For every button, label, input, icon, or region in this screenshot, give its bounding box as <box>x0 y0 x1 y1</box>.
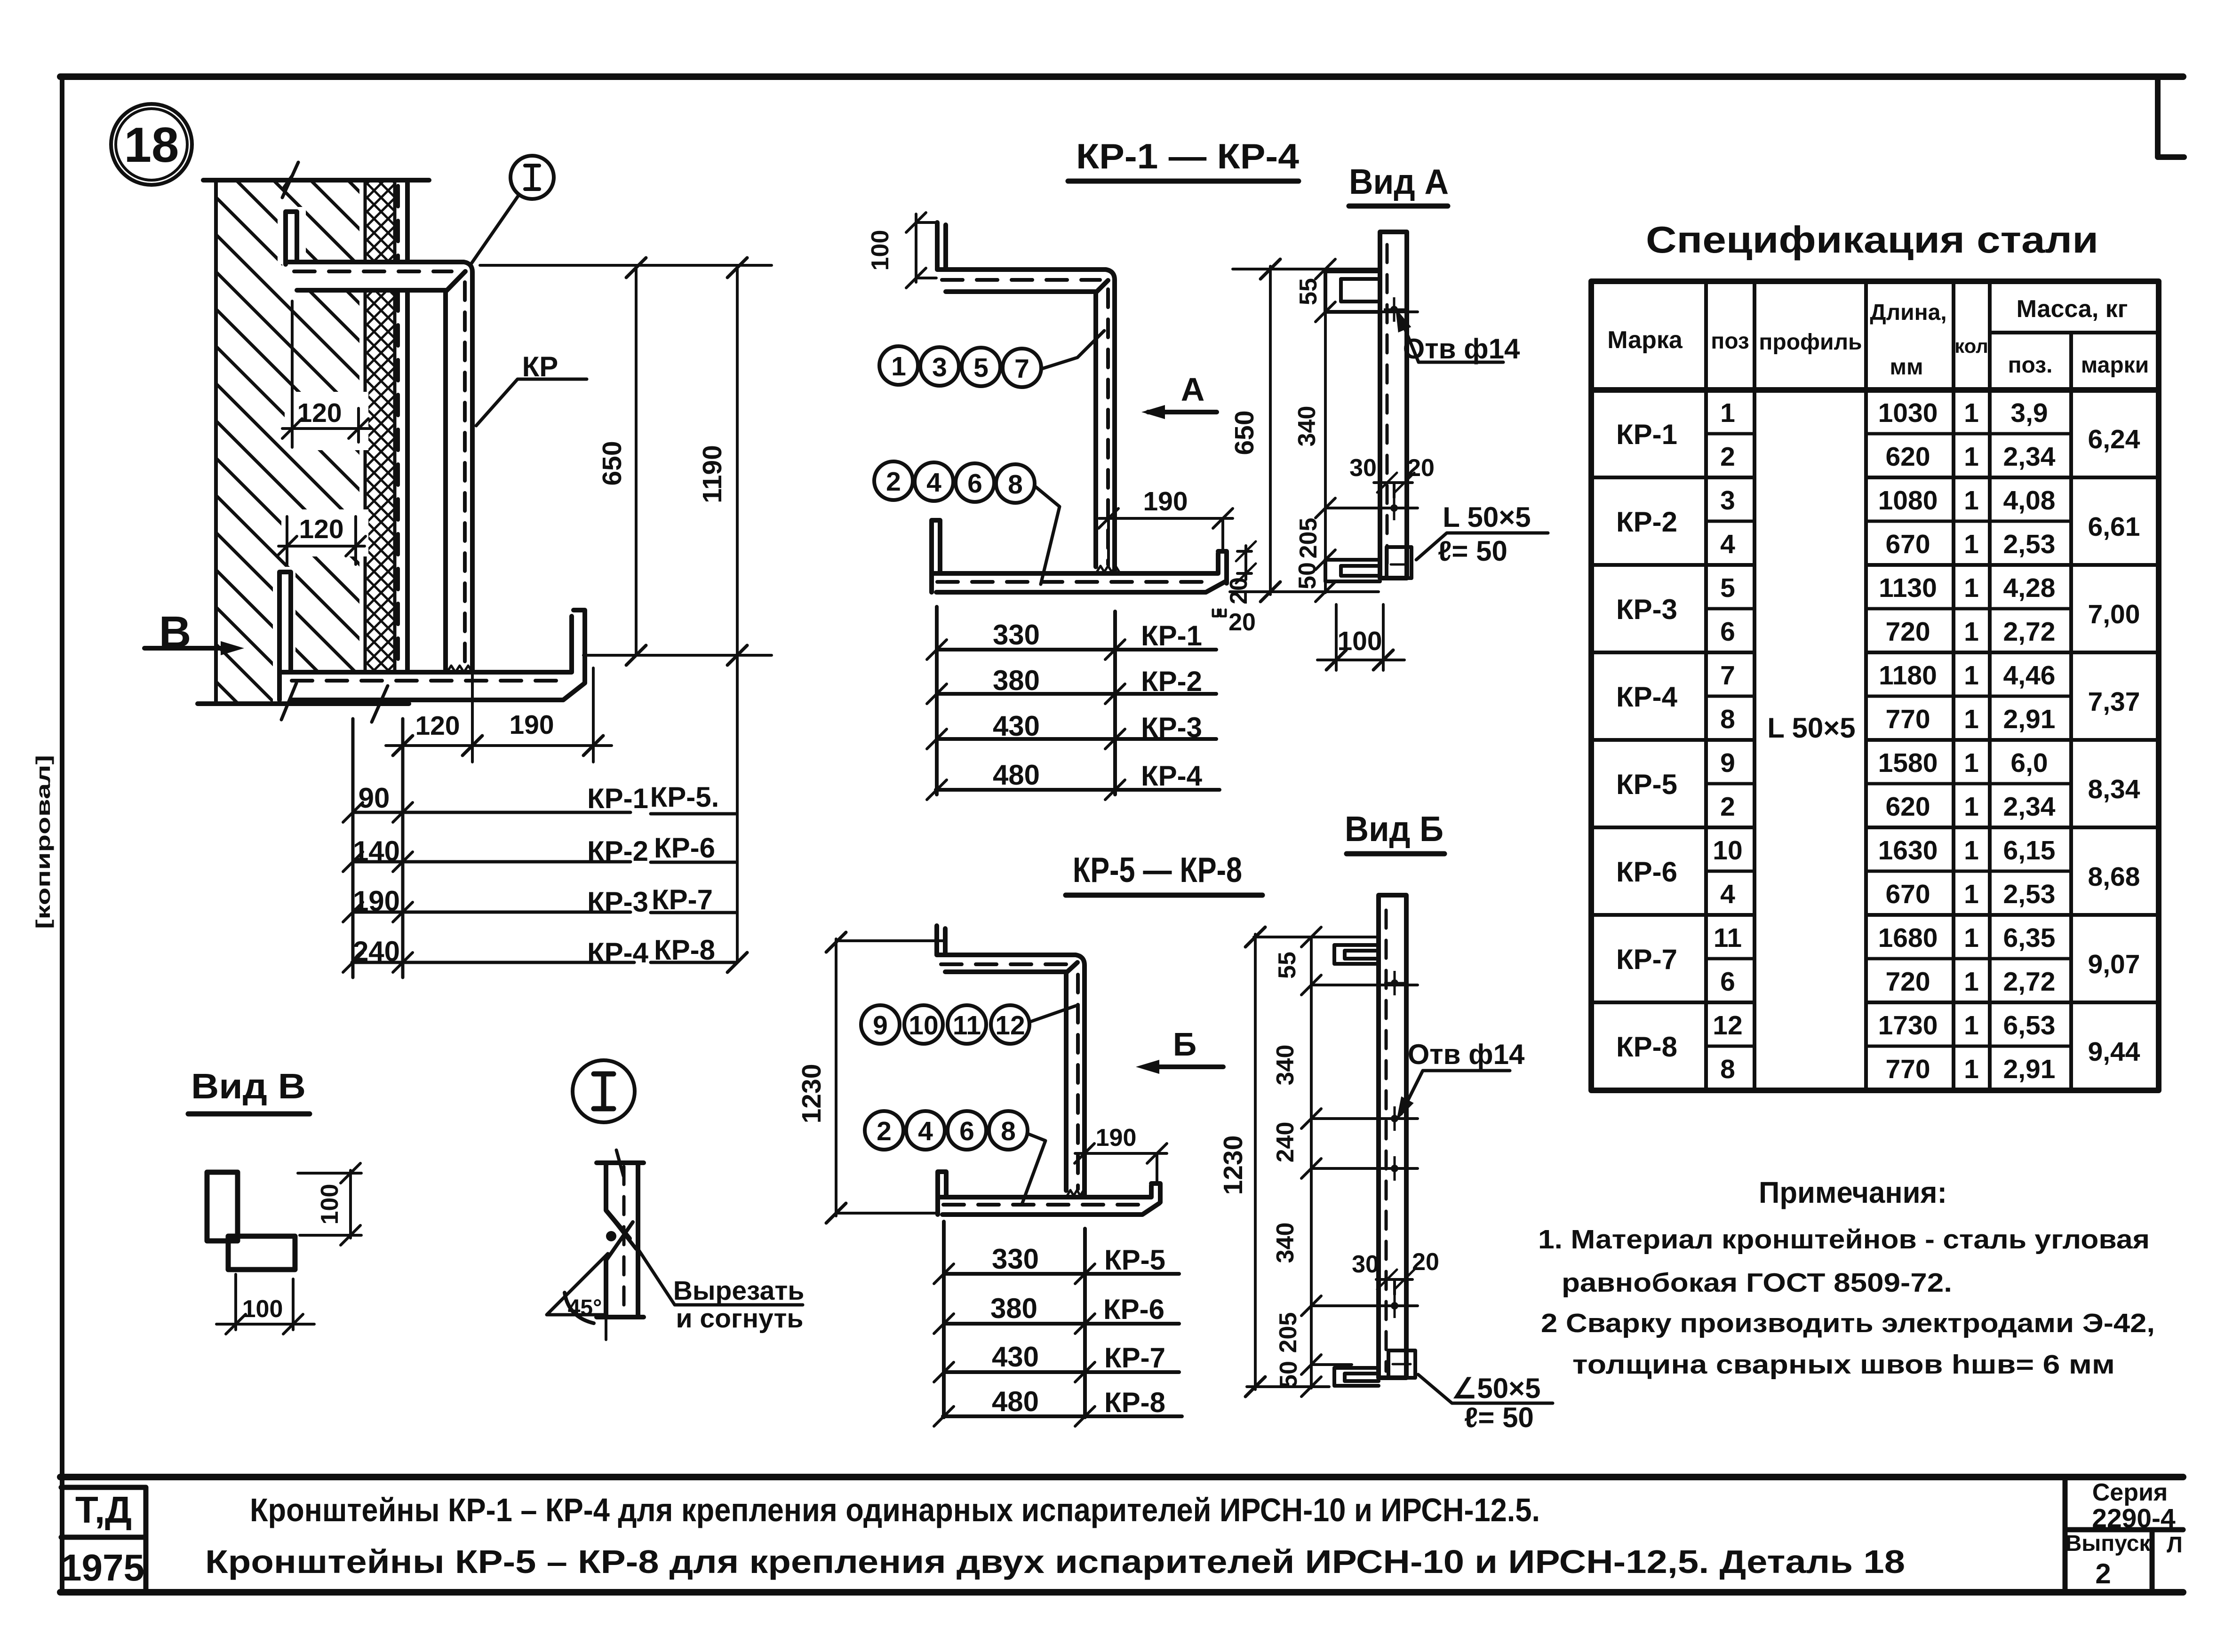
leader 1357 to stem <box>1042 331 1104 369</box>
bottom arm dashed <box>937 580 1210 584</box>
wall finish face line <box>405 180 410 704</box>
svg-text:L 50×5: L 50×5 <box>1443 501 1531 533</box>
svg-text:Вырезать: Вырезать <box>673 1276 805 1306</box>
wall bottom edge <box>198 701 409 706</box>
svg-text:КР-2: КР-2 <box>587 835 648 867</box>
svg-text:6,61: 6,61 <box>2088 512 2140 542</box>
svg-text:Примечания:: Примечания: <box>1759 1175 1947 1209</box>
svg-text:8: 8 <box>1720 1054 1735 1084</box>
bottom angle piece <box>1334 1368 1379 1386</box>
svg-text:1: 1 <box>1964 529 1979 559</box>
L50x5 end piece <box>1388 1350 1415 1378</box>
svg-text:205: 205 <box>1295 518 1322 559</box>
bracket bottom arm (section) <box>279 610 585 700</box>
bar hidden dashed <box>1386 245 1389 572</box>
svg-text:2: 2 <box>877 1116 892 1146</box>
bracket top lip (section) <box>286 212 297 264</box>
svg-text:2,72: 2,72 <box>2003 617 2056 647</box>
svg-text:1230: 1230 <box>797 1064 827 1124</box>
detail circle 18 <box>111 104 192 185</box>
weld mark stem bottom <box>447 666 472 672</box>
svg-text:120: 120 <box>415 711 460 741</box>
svg-text:КР-1 — КР-4: КР-1 — КР-4 <box>1076 136 1299 176</box>
dim 190 <box>1099 518 1233 567</box>
bottom arm hidden dashed <box>292 679 569 683</box>
holes <box>1384 297 1404 322</box>
svg-text:1: 1 <box>1964 792 1979 822</box>
svg-text:кол: кол <box>1954 335 1988 357</box>
45 deg wedge <box>547 1254 608 1315</box>
dim 650 view A <box>1230 266 1379 595</box>
bar hidden dashed <box>1385 910 1388 1371</box>
frame border left <box>60 77 64 1592</box>
detail circle I <box>573 1060 635 1122</box>
svg-text:4: 4 <box>926 468 941 498</box>
svg-text:4,46: 4,46 <box>2003 660 2056 691</box>
stem dashed <box>1106 289 1110 564</box>
svg-text:6: 6 <box>959 1116 974 1146</box>
svg-text:9,44: 9,44 <box>2088 1037 2140 1067</box>
dim 100 top lip <box>916 214 937 282</box>
bracket hidden leg dashed <box>396 186 400 701</box>
stem dashed <box>1076 975 1080 1189</box>
svg-text:КР-6: КР-6 <box>1616 856 1677 888</box>
svg-text:720: 720 <box>1885 967 1930 997</box>
svg-text:2,91: 2,91 <box>2003 1054 2056 1084</box>
svg-text:Б: Б <box>1173 1026 1196 1063</box>
svg-text:8: 8 <box>1008 469 1023 500</box>
svg-text:3,9: 3,9 <box>2010 398 2048 428</box>
dim 1190 section <box>736 265 739 962</box>
svg-text:770: 770 <box>1885 1054 1930 1084</box>
svg-text:Т,Д: Т,Д <box>75 1489 132 1531</box>
svg-text:620: 620 <box>1885 442 1930 472</box>
svg-text:Серия: Серия <box>2092 1479 2168 1506</box>
svg-text:30: 30 <box>1352 1251 1379 1278</box>
svg-text:12: 12 <box>995 1010 1025 1040</box>
bracket top arm (section) <box>286 262 472 672</box>
svg-text:и согнуть: и согнуть <box>676 1303 804 1334</box>
svg-text:2 Сварку производить электр: 2 Сварку производить электродами Э-42, <box>1541 1308 2155 1338</box>
svg-text:1: 1 <box>1964 704 1979 734</box>
svg-text:КР-4: КР-4 <box>587 937 649 969</box>
bottom end mark <box>597 1315 644 1319</box>
bottom arm <box>932 551 1227 592</box>
svg-text:КР-8: КР-8 <box>654 934 715 966</box>
svg-text:1: 1 <box>891 351 906 381</box>
svg-text:100: 100 <box>242 1295 283 1323</box>
detail bar dashed <box>622 1167 626 1315</box>
svg-text:КР-4: КР-4 <box>1141 760 1203 792</box>
svg-text:120: 120 <box>297 398 342 428</box>
cut cross <box>606 1210 636 1261</box>
svg-text:КР-3: КР-3 <box>1616 594 1677 625</box>
svg-text:1080: 1080 <box>1878 485 1938 516</box>
svg-text:1190: 1190 <box>697 445 727 503</box>
svg-text:11: 11 <box>953 1010 981 1040</box>
svg-text:1: 1 <box>1964 660 1979 691</box>
svg-text:КР-7: КР-7 <box>1616 944 1677 975</box>
svg-text:7: 7 <box>1720 660 1735 691</box>
top arm hidden dashed <box>294 270 452 273</box>
column lines <box>1706 281 2071 1090</box>
detail circle I (section) <box>510 156 554 199</box>
svg-text:190: 190 <box>353 885 400 917</box>
dim column 55 340 205 50 <box>1325 269 1418 593</box>
stem hidden dashed <box>463 282 467 666</box>
dim 100 bottom view A <box>1317 604 1404 670</box>
svg-text:Вид Б: Вид Б <box>1345 809 1443 849</box>
svg-text:6: 6 <box>1720 617 1735 647</box>
svg-text:2: 2 <box>886 467 901 497</box>
svg-text:620: 620 <box>1885 792 1930 822</box>
svg-text:7,37: 7,37 <box>2088 687 2140 717</box>
svg-text:Вид А: Вид А <box>1349 162 1449 201</box>
svg-text:1630: 1630 <box>1878 835 1938 866</box>
svg-text:190: 190 <box>509 710 554 740</box>
vertical piece <box>207 1172 238 1241</box>
svg-text:4: 4 <box>1720 529 1735 559</box>
svg-text:6,24: 6,24 <box>2088 424 2140 454</box>
svg-text:поз.: поз. <box>2008 353 2053 378</box>
dim column view B <box>1311 937 1418 1388</box>
svg-text:А: А <box>1181 371 1205 408</box>
svg-text:650: 650 <box>1229 410 1260 455</box>
svg-text:2,53: 2,53 <box>2003 879 2056 909</box>
svg-text:7,00: 7,00 <box>2088 599 2140 629</box>
svg-text:1: 1 <box>1720 398 1735 428</box>
table frame <box>1591 281 2159 1090</box>
svg-text:90: 90 <box>359 782 390 814</box>
detail bar <box>606 1164 638 1317</box>
bracket top arm and stem <box>937 955 1085 1197</box>
svg-text:1: 1 <box>1964 398 1979 428</box>
svg-text:7: 7 <box>1014 354 1029 384</box>
svg-text:650: 650 <box>597 441 627 485</box>
bar (stem front) <box>1380 232 1407 578</box>
svg-text:КР-6: КР-6 <box>1103 1294 1164 1325</box>
svg-text:марки: марки <box>2081 353 2149 378</box>
svg-text:430: 430 <box>992 1341 1039 1373</box>
size table KP-5..8 <box>944 1222 1085 1417</box>
svg-text:Выпуск: Выпуск <box>2066 1531 2151 1556</box>
svg-text:720: 720 <box>1885 617 1930 647</box>
svg-text:20: 20 <box>1412 1248 1439 1276</box>
svg-text:2: 2 <box>1720 442 1735 472</box>
svg-text:1: 1 <box>1964 485 1979 516</box>
svg-text:2,72: 2,72 <box>2003 967 2056 997</box>
svg-text:1730: 1730 <box>1878 1010 1938 1040</box>
svg-text:30: 30 <box>1349 454 1377 482</box>
insulation outlines <box>365 180 395 704</box>
svg-text:2: 2 <box>2095 1558 2111 1589</box>
svg-text:380: 380 <box>993 665 1040 696</box>
svg-text:6,35: 6,35 <box>2003 923 2056 953</box>
dim 120 top <box>282 301 372 447</box>
wall brick hatch <box>216 180 359 704</box>
frame border top <box>60 73 2183 80</box>
svg-text:8,68: 8,68 <box>2088 862 2140 892</box>
svg-text:L 50×5: L 50×5 <box>1767 712 1855 744</box>
drop rows KP-5..8 column <box>651 814 735 962</box>
svg-text:2290-4: 2290-4 <box>2092 1503 2176 1533</box>
leader circle I to corner <box>471 195 519 263</box>
svg-text:50: 50 <box>1275 1361 1302 1388</box>
svg-text:190: 190 <box>1143 486 1188 516</box>
dim total 1230 view B <box>1247 934 1379 1390</box>
bracket top lip <box>937 926 945 955</box>
top arm dashed <box>941 962 1072 966</box>
top arm dashed <box>942 278 1100 282</box>
svg-text:КР-8: КР-8 <box>1104 1387 1165 1418</box>
frame corner mark top right <box>2158 80 2184 157</box>
svg-text:1680: 1680 <box>1878 923 1938 953</box>
svg-text:Вид В: Вид В <box>191 1066 306 1106</box>
svg-text:КР-5: КР-5 <box>1104 1244 1165 1276</box>
svg-text:Отв ф14: Отв ф14 <box>1408 1039 1525 1070</box>
drop table verticals <box>353 719 403 977</box>
svg-text:2,34: 2,34 <box>2003 442 2056 472</box>
dim 100 bottom <box>216 1274 314 1330</box>
svg-text:9,07: 9,07 <box>2088 949 2140 979</box>
svg-text:4: 4 <box>918 1116 933 1146</box>
leader 2468 to bottom arm <box>1022 1134 1045 1204</box>
svg-text:1: 1 <box>1964 1010 1979 1040</box>
svg-text:20: 20 <box>1407 454 1435 482</box>
svg-text:6,0: 6,0 <box>2010 748 2048 778</box>
svg-text:1230: 1230 <box>1218 1136 1248 1195</box>
svg-text:ℓ= 50: ℓ= 50 <box>1464 1402 1534 1433</box>
svg-text:2,34: 2,34 <box>2003 792 2056 822</box>
svg-text:480: 480 <box>993 759 1040 791</box>
wall left edge <box>214 180 218 704</box>
svg-text:Длина,: Длина, <box>1870 300 1946 325</box>
svg-text:толщина сварных швов hшв= 6: толщина сварных швов hшв= 6 мм <box>1572 1350 2115 1380</box>
svg-text:20: 20 <box>1228 609 1256 636</box>
svg-text:∠50×5: ∠50×5 <box>1452 1373 1541 1404</box>
svg-text:330: 330 <box>993 619 1040 651</box>
svg-text:6: 6 <box>967 469 982 499</box>
svg-text:КР-5: КР-5 <box>1616 769 1677 800</box>
svg-text:240: 240 <box>353 936 400 967</box>
svg-text:ℓ= 50: ℓ= 50 <box>1438 535 1507 567</box>
bracket top arm and stem <box>937 270 1115 573</box>
svg-text:9: 9 <box>1720 748 1735 778</box>
weld mark stem/arm <box>1097 566 1119 572</box>
dim 100 right <box>298 1170 361 1238</box>
svg-text:45°: 45° <box>568 1295 602 1320</box>
svg-text:5: 5 <box>973 353 989 383</box>
header lines <box>1591 387 2159 393</box>
svg-text:КР-3: КР-3 <box>587 886 648 918</box>
svg-text:2,53: 2,53 <box>2003 529 2056 559</box>
svg-text:1: 1 <box>1964 923 1979 953</box>
dim 190 KP-5-8 <box>1075 1153 1167 1182</box>
title block lines <box>60 1477 2183 1592</box>
top angle piece <box>1334 945 1379 964</box>
svg-text:Кронштейны КР-1 – КР-4 для: Кронштейны КР-1 – КР-4 для крепления оди… <box>250 1492 1540 1528</box>
svg-text:КР-5 — КР-8: КР-5 — КР-8 <box>1073 850 1242 890</box>
svg-text:1: 1 <box>1964 967 1979 997</box>
white-outs for dims and bracket <box>273 207 590 702</box>
svg-text:1975: 1975 <box>61 1547 144 1588</box>
svg-text:3: 3 <box>1720 485 1735 516</box>
weld mark stem bottom <box>1067 1190 1084 1196</box>
svg-text:мм: мм <box>1890 355 1923 380</box>
svg-text:1180: 1180 <box>1879 660 1937 691</box>
svg-text:2,91: 2,91 <box>2003 704 2056 734</box>
wall top edge <box>203 178 429 183</box>
bottom arm left lip <box>938 1172 946 1215</box>
svg-text:11: 11 <box>1714 923 1742 953</box>
svg-text:1: 1 <box>1964 1054 1979 1084</box>
svg-text:55: 55 <box>1295 278 1322 305</box>
svg-text:КР-2: КР-2 <box>1616 506 1677 538</box>
svg-text:Отв ф14: Отв ф14 <box>1403 333 1520 365</box>
position circles 2 4 6 8 <box>874 461 913 500</box>
svg-text:330: 330 <box>992 1243 1039 1275</box>
svg-text:профиль: профиль <box>1759 330 1862 355</box>
svg-text:1: 1 <box>1964 748 1979 778</box>
svg-text:КР-5.: КР-5. <box>650 781 719 813</box>
svg-text:КР-1: КР-1 <box>1141 620 1202 651</box>
svg-text:КР-8: КР-8 <box>1616 1031 1677 1063</box>
svg-text:1: 1 <box>1964 442 1979 472</box>
bracket top lip <box>937 222 946 270</box>
svg-text:4,08: 4,08 <box>2003 485 2056 516</box>
dim 20 bottom marks <box>1213 610 1226 616</box>
svg-text:55: 55 <box>1274 952 1301 979</box>
svg-text:КР-4: КР-4 <box>1616 681 1678 713</box>
svg-text:Л: Л <box>2167 1533 2183 1557</box>
svg-text:18: 18 <box>124 118 179 173</box>
svg-text:340: 340 <box>1293 406 1321 447</box>
svg-text:8,34: 8,34 <box>2088 774 2140 804</box>
horizontal piece <box>228 1236 295 1270</box>
svg-text:100: 100 <box>867 230 894 271</box>
wall break marks <box>281 162 388 722</box>
svg-text:КР-1: КР-1 <box>1616 419 1677 450</box>
dim 120 190 below section <box>386 666 612 762</box>
svg-text:КР-7: КР-7 <box>1104 1342 1165 1374</box>
svg-text:1: 1 <box>1964 835 1979 866</box>
leader 9-12 to stem <box>1030 1006 1076 1022</box>
top break mark <box>597 1160 644 1165</box>
sub row lines <box>1706 434 2071 1046</box>
position circles 9 10 11 12 <box>861 1005 900 1044</box>
svg-text:1: 1 <box>1964 879 1979 909</box>
svg-text:4: 4 <box>1720 879 1735 909</box>
svg-text:1030: 1030 <box>1878 398 1938 428</box>
svg-text:190: 190 <box>1096 1124 1137 1152</box>
svg-text:1580: 1580 <box>1878 748 1938 778</box>
bar <box>1379 895 1406 1378</box>
bottom arm <box>938 1183 1160 1215</box>
svg-text:100: 100 <box>1337 626 1382 656</box>
svg-text:9: 9 <box>873 1010 888 1040</box>
svg-text:Марка: Марка <box>1607 326 1683 354</box>
dim 120 bottom <box>279 516 365 564</box>
svg-text:340: 340 <box>1272 1045 1299 1086</box>
svg-text:4,28: 4,28 <box>2003 573 2056 603</box>
size table KP-1..4 <box>937 607 1115 794</box>
L50x5 end piece <box>1387 547 1412 578</box>
svg-text:100: 100 <box>316 1184 343 1225</box>
svg-text:6,53: 6,53 <box>2003 1010 2056 1040</box>
svg-text:670: 670 <box>1885 879 1930 909</box>
svg-text:[копировал]: [копировал] <box>32 755 54 929</box>
svg-text:КР-3: КР-3 <box>1141 712 1202 743</box>
svg-text:8: 8 <box>1720 704 1735 734</box>
position circles 1 3 5 7 <box>879 346 918 385</box>
svg-text:10: 10 <box>1713 835 1742 866</box>
svg-text:2: 2 <box>1720 792 1735 822</box>
dim 650 section <box>480 265 772 655</box>
svg-text:1. Материал кронштейнов - ста: 1. Материал кронштейнов - сталь угловая <box>1538 1224 2150 1255</box>
leader 2468 to bottom arm <box>1035 486 1060 584</box>
svg-text:670: 670 <box>1885 529 1930 559</box>
major row lines <box>1591 477 2159 1002</box>
svg-text:1130: 1130 <box>1879 573 1937 603</box>
svg-text:поз: поз <box>1711 329 1749 354</box>
svg-text:380: 380 <box>990 1293 1037 1324</box>
svg-text:5: 5 <box>1720 573 1735 603</box>
dim 20 lip <box>1237 546 1252 580</box>
svg-text:340: 340 <box>1272 1223 1299 1263</box>
svg-text:770: 770 <box>1885 704 1930 734</box>
svg-text:6,15: 6,15 <box>2003 835 2056 866</box>
svg-text:430: 430 <box>993 710 1040 742</box>
svg-text:12: 12 <box>1713 1010 1742 1040</box>
holes view B <box>1384 971 1405 995</box>
drop rows 90 140 190 240 <box>352 812 634 962</box>
svg-text:120: 120 <box>299 514 343 544</box>
svg-text:Кронштейны КР-5 – КР-8 для: Кронштейны КР-5 – КР-8 для крепления дву… <box>205 1543 1905 1580</box>
svg-text:50: 50 <box>1294 562 1321 589</box>
svg-text:1: 1 <box>1964 617 1979 647</box>
bottom arm left lip <box>932 520 940 592</box>
svg-text:140: 140 <box>353 835 400 867</box>
svg-text:205: 205 <box>1275 1312 1302 1353</box>
svg-text:240: 240 <box>1272 1122 1299 1163</box>
svg-text:10: 10 <box>909 1010 938 1040</box>
bottom arm dashed <box>943 1203 1147 1207</box>
svg-text:6: 6 <box>1720 967 1735 997</box>
dim 1230 <box>836 939 943 1216</box>
svg-text:3: 3 <box>932 352 947 382</box>
wall insulation crosshatch <box>365 180 395 704</box>
svg-text:1: 1 <box>1964 573 1979 603</box>
svg-text:КР-7: КР-7 <box>652 884 713 915</box>
bracket bottom lip (section) <box>279 572 291 700</box>
svg-text:КР-1: КР-1 <box>587 783 648 814</box>
svg-text:Масса, кг: Масса, кг <box>2017 295 2128 323</box>
svg-text:равнобокая ГОСТ 8509-72.: равнобокая ГОСТ 8509-72. <box>1562 1268 1952 1298</box>
svg-text:480: 480 <box>992 1386 1039 1417</box>
top angle piece <box>1325 271 1380 312</box>
svg-text:КР-2: КР-2 <box>1141 666 1202 697</box>
position circles 2 4 6 8 lower <box>865 1111 903 1150</box>
svg-text:8: 8 <box>1001 1116 1016 1146</box>
svg-text:КР-6: КР-6 <box>654 832 715 864</box>
svg-text:Спецификация стали: Спецификация стали <box>1646 219 2098 261</box>
bottom angle piece <box>1325 560 1380 581</box>
